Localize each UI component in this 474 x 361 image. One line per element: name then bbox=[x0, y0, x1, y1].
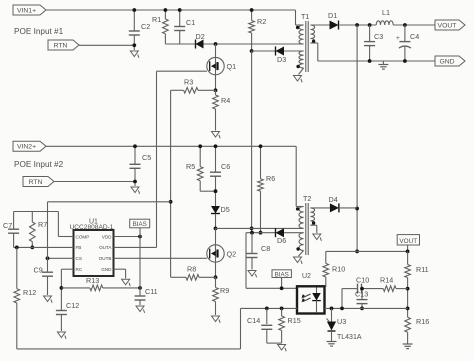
svg-text:GND: GND bbox=[439, 58, 454, 65]
svg-text:R8: R8 bbox=[187, 265, 196, 274]
svg-text:R2: R2 bbox=[257, 17, 266, 26]
svg-text:R11: R11 bbox=[416, 265, 429, 274]
svg-text:R6: R6 bbox=[266, 174, 275, 183]
svg-text:U2: U2 bbox=[302, 273, 311, 280]
svg-text:CS: CS bbox=[76, 256, 82, 261]
svg-text:R14: R14 bbox=[380, 276, 393, 285]
svg-text:R5: R5 bbox=[186, 162, 195, 171]
svg-text:R12: R12 bbox=[23, 288, 36, 297]
svg-text:R7: R7 bbox=[38, 220, 47, 229]
svg-text:VIN2+: VIN2+ bbox=[17, 144, 36, 151]
svg-text:R16: R16 bbox=[416, 317, 429, 326]
svg-text:C6: C6 bbox=[221, 162, 230, 171]
svg-text:Q1: Q1 bbox=[227, 62, 237, 71]
svg-text:RTN: RTN bbox=[29, 179, 43, 186]
svg-text:D1: D1 bbox=[328, 11, 337, 20]
svg-text:C1: C1 bbox=[186, 18, 195, 27]
svg-text:D4: D4 bbox=[329, 195, 338, 204]
svg-text:D6: D6 bbox=[277, 236, 286, 245]
svg-text:C4: C4 bbox=[410, 32, 419, 41]
svg-text:C7: C7 bbox=[3, 221, 12, 230]
svg-text:C11: C11 bbox=[145, 287, 158, 296]
svg-text:C5: C5 bbox=[142, 153, 151, 162]
svg-text:COMP: COMP bbox=[76, 234, 90, 239]
svg-text:TL431A: TL431A bbox=[337, 334, 362, 341]
svg-text:POE Input #1: POE Input #1 bbox=[14, 27, 64, 36]
svg-text:C10: C10 bbox=[356, 276, 369, 285]
svg-text:D2: D2 bbox=[196, 32, 205, 41]
svg-text:R9: R9 bbox=[220, 286, 229, 295]
svg-text:POE Input #2: POE Input #2 bbox=[14, 160, 64, 169]
svg-text:R4: R4 bbox=[221, 96, 230, 105]
svg-text:T1: T1 bbox=[301, 12, 309, 21]
svg-text:C12: C12 bbox=[66, 301, 79, 310]
svg-text:L1: L1 bbox=[382, 8, 390, 17]
svg-text:GND: GND bbox=[101, 267, 112, 272]
svg-text:U3: U3 bbox=[337, 317, 346, 326]
svg-text:D3: D3 bbox=[277, 55, 286, 64]
svg-text:VIN1+: VIN1+ bbox=[17, 7, 36, 14]
svg-text:RC: RC bbox=[76, 267, 83, 272]
svg-text:C13: C13 bbox=[355, 290, 368, 299]
svg-text:FB: FB bbox=[76, 245, 82, 250]
svg-text:R10: R10 bbox=[332, 265, 345, 274]
svg-text:D5: D5 bbox=[221, 205, 230, 214]
svg-text:VOUT: VOUT bbox=[438, 22, 457, 29]
svg-text:VDD: VDD bbox=[102, 234, 112, 239]
svg-text:C3: C3 bbox=[374, 32, 383, 41]
svg-text:C2: C2 bbox=[141, 22, 150, 31]
svg-text:BIAS: BIAS bbox=[133, 221, 147, 228]
svg-text:VOUT: VOUT bbox=[399, 238, 417, 245]
svg-text:OUTB: OUTB bbox=[99, 256, 112, 261]
svg-text:RTN: RTN bbox=[54, 42, 68, 49]
svg-text:R15: R15 bbox=[288, 316, 301, 325]
svg-text:UCC2808AD-1: UCC2808AD-1 bbox=[70, 224, 114, 231]
svg-text:T2: T2 bbox=[303, 194, 311, 203]
svg-text:+: + bbox=[396, 35, 400, 42]
svg-text:R1: R1 bbox=[152, 15, 161, 24]
svg-text:C9: C9 bbox=[34, 266, 43, 275]
svg-text:C14: C14 bbox=[247, 316, 260, 325]
svg-text:R3: R3 bbox=[184, 78, 193, 87]
svg-text:C8: C8 bbox=[261, 244, 270, 253]
svg-text:R13: R13 bbox=[86, 276, 99, 285]
svg-text:Q2: Q2 bbox=[227, 250, 237, 259]
svg-text:BIAS: BIAS bbox=[275, 271, 289, 278]
svg-text:OUTA: OUTA bbox=[99, 245, 112, 250]
